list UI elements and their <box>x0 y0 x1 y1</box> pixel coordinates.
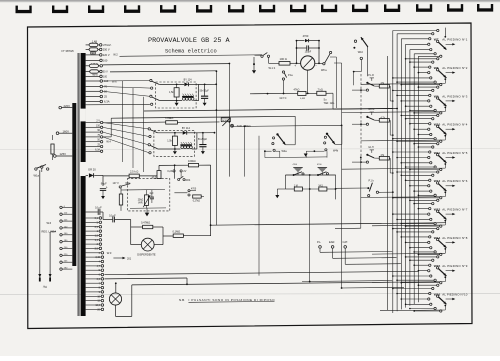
svg-text:I PULSANTI SONO IN POSIZIONE D: I PULSANTI SONO IN POSIZIONE DI RIPOSO <box>189 298 276 302</box>
svg-text:160V: 160V <box>63 129 70 133</box>
svg-text:GR 20: GR 20 <box>88 168 96 172</box>
svg-text:AL PIEDINO N°3: AL PIEDINO N°3 <box>442 94 467 98</box>
svg-text:DISPERDENTE: DISPERDENTE <box>137 252 156 256</box>
svg-text:34,5: 34,5 <box>318 185 323 187</box>
svg-text:BY 114: BY 114 <box>184 79 193 82</box>
svg-text:AL PIEDINO N°4: AL PIEDINO N°4 <box>442 123 467 127</box>
svg-text:6,3A: 6,3A <box>95 148 100 151</box>
svg-text:VAR.: VAR. <box>138 201 144 204</box>
svg-text:W12: W12 <box>434 179 441 183</box>
svg-text:W1a: W1a <box>34 174 40 178</box>
svg-text:0,1µF: 0,1µF <box>95 206 102 210</box>
svg-text:P.L.R: P.L.R <box>368 75 374 77</box>
svg-text:G1.H: G1.H <box>368 147 374 149</box>
svg-text:7 kΩ: 7 kΩ <box>318 89 323 92</box>
svg-text:W10: W10 <box>434 123 441 127</box>
svg-text:AL PIEDINO N°9: AL PIEDINO N°9 <box>442 264 467 268</box>
svg-text:TAR. GFL: TAR. GFL <box>324 102 336 105</box>
svg-text:W13: W13 <box>434 208 441 212</box>
svg-text:LINEA: LINEA <box>166 116 174 120</box>
svg-text:W.6: W.6 <box>112 79 117 83</box>
svg-text:EAR.: EAR. <box>329 240 335 244</box>
svg-text:W8 a: W8 a <box>321 69 327 72</box>
svg-text:+: + <box>106 186 108 190</box>
svg-text:W11: W11 <box>434 151 440 155</box>
svg-text:250 V: 250 V <box>103 48 110 52</box>
svg-text:N.B.: N.B. <box>179 298 185 302</box>
svg-text:W.1 b: W.1 b <box>269 66 276 70</box>
svg-text:W2b: W2b <box>185 179 191 182</box>
svg-text:CAT.: CAT. <box>343 240 349 244</box>
svg-text:1 M: 1 M <box>294 185 298 187</box>
svg-text:25: 25 <box>104 95 107 99</box>
svg-text:GFY.C: GFY.C <box>280 97 287 100</box>
svg-text:100 Ω: 100 Ω <box>280 57 287 61</box>
svg-text:6,3A: 6,3A <box>104 100 110 104</box>
svg-text:25kΩ: 25kΩ <box>138 199 144 201</box>
svg-text:201: 201 <box>127 257 132 260</box>
svg-text:AL PIEDINO N°6: AL PIEDINO N°6 <box>442 179 467 183</box>
svg-text:100pF: 100pF <box>305 52 312 54</box>
svg-text:0,1µF: 0,1µF <box>109 214 116 218</box>
svg-text:45,5: 45,5 <box>152 177 157 180</box>
svg-text:12,6: 12,6 <box>95 304 100 307</box>
svg-text:Ag: Ag <box>43 285 47 289</box>
svg-text:AL PIEDINO N°10: AL PIEDINO N°10 <box>442 292 467 296</box>
svg-text:P.L.: P.L. <box>317 240 322 244</box>
svg-text:0,1MΩ: 0,1MΩ <box>173 230 181 234</box>
svg-text:147 V: 147 V <box>113 182 120 185</box>
svg-text:AL PIEDINO N°2: AL PIEDINO N°2 <box>442 66 467 70</box>
svg-text:GB 25 A: GB 25 A <box>201 37 230 45</box>
svg-text:220V: 220V <box>64 104 71 108</box>
svg-text:0,2A: 0,2A <box>167 170 172 173</box>
svg-text:50 V: 50 V <box>103 71 108 74</box>
svg-text:+: + <box>294 64 296 68</box>
svg-text:220 V: 220 V <box>103 53 110 57</box>
svg-text:2 V: 2 V <box>96 120 100 123</box>
svg-text:BY 114: BY 114 <box>182 127 191 130</box>
svg-text:50+50µF: 50+50µF <box>198 139 208 141</box>
svg-text:47kΩ: 47kΩ <box>294 89 300 92</box>
svg-text:AL PIEDINO N°5: AL PIEDINO N°5 <box>442 151 467 155</box>
svg-text:AL PIEDINO N°7: AL PIEDINO N°7 <box>442 208 467 212</box>
svg-text:W14: W14 <box>434 236 441 240</box>
svg-text:TAR. LINEA: TAR. LINEA <box>237 124 251 128</box>
svg-text:N° 3870/h: N° 3870/h <box>62 49 75 53</box>
svg-text:W4a: W4a <box>282 150 288 153</box>
svg-text:−: − <box>315 64 317 68</box>
svg-text:2V: 2V <box>183 170 186 173</box>
svg-text:0,27kΩ: 0,27kΩ <box>193 201 201 203</box>
svg-text:P.1a: P.1a <box>288 74 293 77</box>
svg-text:W4b: W4b <box>333 150 339 153</box>
svg-text:UTILIZ.: UTILIZ. <box>103 43 112 47</box>
svg-text:160: 160 <box>103 59 108 63</box>
svg-text:W.4: W.4 <box>106 139 111 143</box>
svg-text:W16: W16 <box>434 292 441 296</box>
svg-text:4700: 4700 <box>303 34 309 38</box>
svg-text:W10: W10 <box>358 51 364 54</box>
svg-text:W.6: W.6 <box>47 221 52 225</box>
svg-text:AL PIEDINO N°1: AL PIEDINO N°1 <box>442 38 467 42</box>
svg-text:3,15: 3,15 <box>95 256 100 259</box>
svg-text:AL PIEDINO N°8: AL PIEDINO N°8 <box>442 236 467 240</box>
svg-text:Schema elettrico: Schema elettrico <box>165 49 217 55</box>
svg-text:P.1 b: P.1 b <box>369 180 375 183</box>
svg-text:100: 100 <box>103 76 108 79</box>
svg-text:PROVAVALVOLE: PROVAVALVOLE <box>148 37 197 45</box>
svg-text:125V: 125V <box>60 152 67 156</box>
svg-text:W.2: W.2 <box>113 53 118 57</box>
svg-text:4µF: 4µF <box>150 193 155 195</box>
svg-text:1,5k: 1,5k <box>167 140 172 143</box>
svg-text:4700: 4700 <box>191 188 197 190</box>
svg-text:50+50µF: 50+50µF <box>200 91 210 93</box>
svg-text:0,47MΩ: 0,47MΩ <box>141 221 150 225</box>
svg-text:150: 150 <box>96 124 101 127</box>
svg-text:1,5k: 1,5k <box>169 91 174 94</box>
svg-text:W15: W15 <box>434 264 441 268</box>
svg-text:2,5 k Ω: 2,5 k Ω <box>130 169 138 173</box>
svg-text:W.3: W.3 <box>107 251 112 255</box>
svg-text:100kΩ: 100kΩ <box>188 159 196 163</box>
svg-text:GR.M: GR.M <box>368 109 374 111</box>
